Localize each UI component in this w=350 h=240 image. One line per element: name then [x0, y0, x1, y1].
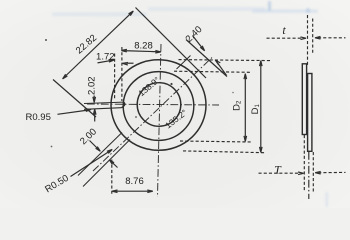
t extension right [312, 19, 314, 55]
outer circle D1 [111, 60, 206, 151]
label 138.9 deg [136, 75, 161, 99]
slot top edge [84, 102, 124, 103]
extension line D2 top [174, 71, 251, 72]
diagonal centerline [93, 58, 212, 172]
speck [51, 146, 53, 148]
extension line lower-left of 22.82 [53, 80, 96, 118]
tab lower-left side B [83, 140, 130, 187]
blue scan streak top [52, 1, 328, 207]
side view axis top / t extension left [307, 15, 309, 67]
dimension 22.82 line [63, 11, 134, 79]
slot bottom edge [84, 108, 122, 110]
extension line D1 bottom [183, 151, 265, 153]
side view plate rear [302, 64, 306, 135]
dimension 2.02 lower arrow [93, 109, 96, 121]
vertical centerline [158, 44, 162, 197]
dimension 2.00 arrow a [90, 141, 101, 152]
label R0.50 [43, 173, 70, 195]
svg-text:8.76: 8.76 [125, 176, 144, 187]
label R0.95 [26, 112, 51, 123]
svg-text:8.28: 8.28 [134, 41, 153, 52]
horizontal centerline [87, 104, 219, 105]
dimension D2 line [244, 74, 247, 142]
inner circle bore [137, 83, 181, 127]
leader R0.95 [58, 109, 92, 114]
extension line D2 bottom [180, 141, 252, 142]
dimension 1.72 right arrow [123, 63, 134, 66]
side view axis bottom [308, 152, 310, 199]
dimension 1.72 leader [98, 60, 115, 63]
dimension 2.40 arrow a [193, 36, 205, 51]
T extension left [303, 135, 305, 192]
slot tip radius R0.95 [122, 102, 125, 108]
label 2.02 [86, 76, 97, 95]
dimension 2.40 arrow b [215, 60, 226, 75]
label 8.28 [134, 41, 153, 52]
svg-text:2.02: 2.02 [86, 76, 97, 95]
extension line for 8.76 [111, 160, 113, 195]
dimension D1 line [260, 61, 263, 153]
extension line L1 from peak [136, 8, 207, 79]
dimension 8.76 [112, 190, 153, 193]
svg-text:R0.95: R0.95 [26, 112, 51, 123]
dimension t left [267, 37, 307, 40]
label 8.76 [125, 176, 144, 187]
extension line D1 top [179, 60, 271, 61]
label T [274, 162, 282, 176]
T extension right [312, 152, 314, 192]
leader R0.50 [71, 149, 113, 176]
tab edge R1 [177, 56, 191, 70]
dimension T right [315, 171, 345, 174]
dimension 8.28 [121, 49, 160, 53]
speck [232, 92, 234, 94]
extension line V1 [114, 54, 116, 100]
dimension 2.00 arrow b [109, 160, 117, 168]
label 2.40 [184, 24, 205, 45]
tab lower-left side A [78, 133, 122, 176]
dimension T left [259, 172, 304, 175]
extension line V2 [121, 47, 123, 101]
label 1.72 [96, 52, 115, 63]
dimension t right [315, 37, 346, 40]
label D1 [250, 104, 261, 115]
extension line L2 [186, 40, 227, 77]
label 22.82 [74, 33, 99, 57]
middle circle D2 [123, 72, 194, 141]
speck [135, 116, 137, 118]
speck [170, 83, 172, 85]
label D2 [232, 100, 243, 111]
label 135.2 deg [163, 107, 189, 130]
side view plate front [308, 74, 312, 152]
speck [45, 39, 47, 41]
label t [282, 23, 286, 37]
label 2.00 [78, 126, 99, 147]
dimension 2.02 upper arrow [93, 96, 96, 103]
